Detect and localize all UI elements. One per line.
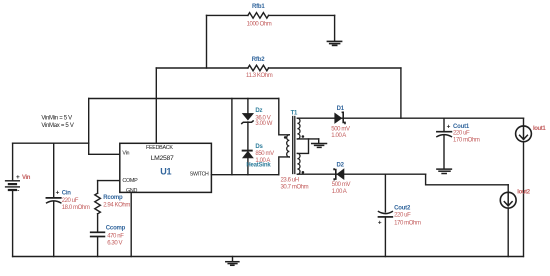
- svg-text:+: +: [56, 189, 60, 196]
- svg-text:220 uF: 220 uF: [62, 198, 79, 204]
- svg-text:23.6 uH: 23.6 uH: [281, 178, 299, 184]
- svg-text:Vin: Vin: [22, 175, 31, 181]
- svg-text:Iout2: Iout2: [517, 190, 530, 196]
- svg-text:Cout2: Cout2: [394, 206, 411, 212]
- svg-text:Rfb1: Rfb1: [252, 4, 265, 10]
- svg-text:+: +: [16, 174, 20, 181]
- svg-text:Dz: Dz: [255, 108, 262, 114]
- svg-text:HeatSink: HeatSink: [246, 163, 271, 169]
- svg-text:Cout1: Cout1: [453, 124, 470, 130]
- svg-text:1000 Ohm: 1000 Ohm: [247, 22, 272, 28]
- svg-text:500 mV: 500 mV: [332, 182, 351, 188]
- svg-text:COMP: COMP: [122, 178, 138, 184]
- svg-text:SWITCH: SWITCH: [190, 171, 209, 177]
- svg-text:D2: D2: [337, 163, 345, 169]
- svg-text:11.3 KOhm: 11.3 KOhm: [246, 73, 273, 79]
- svg-text:220 uF: 220 uF: [453, 131, 470, 137]
- svg-text:VinMax = 5 V: VinMax = 5 V: [41, 123, 73, 129]
- svg-text:Vin: Vin: [122, 151, 129, 157]
- svg-text:3.00 W: 3.00 W: [255, 121, 272, 127]
- svg-text:470 nF: 470 nF: [107, 233, 124, 239]
- svg-text:VinMin = 5 V: VinMin = 5 V: [41, 116, 72, 122]
- svg-text:+: +: [447, 124, 451, 131]
- svg-text:U1: U1: [160, 167, 171, 177]
- svg-text:GND: GND: [126, 188, 137, 194]
- svg-text:6.30 V: 6.30 V: [107, 240, 122, 246]
- svg-text:Iout1: Iout1: [533, 126, 546, 132]
- svg-text:Cin: Cin: [62, 190, 72, 196]
- svg-text:Rcomp: Rcomp: [103, 195, 123, 201]
- svg-text:-: -: [17, 188, 19, 195]
- svg-text:D1: D1: [337, 106, 345, 112]
- svg-text:850 mV: 850 mV: [255, 151, 274, 157]
- svg-text:170 mOhm: 170 mOhm: [453, 138, 480, 144]
- svg-text:1.00 A: 1.00 A: [332, 189, 347, 195]
- svg-text:220 uF: 220 uF: [394, 213, 411, 219]
- svg-text:18.0 mOhm: 18.0 mOhm: [62, 205, 90, 211]
- svg-text:2.94 KOhm: 2.94 KOhm: [103, 203, 130, 209]
- svg-text:Rfb2: Rfb2: [252, 57, 265, 63]
- svg-text:30.7 mOhm: 30.7 mOhm: [281, 185, 309, 191]
- svg-text:Ds: Ds: [255, 144, 263, 150]
- svg-text:500 mV: 500 mV: [331, 126, 350, 132]
- svg-text:Ccomp: Ccomp: [106, 226, 126, 232]
- svg-text:1.00 A: 1.00 A: [331, 133, 346, 139]
- svg-text:LM2587: LM2587: [151, 155, 174, 162]
- svg-text:+: +: [378, 219, 382, 226]
- svg-text:170 mOhm: 170 mOhm: [394, 221, 421, 227]
- svg-text:T1: T1: [291, 111, 298, 117]
- svg-text:FEEDBACK: FEEDBACK: [146, 145, 173, 151]
